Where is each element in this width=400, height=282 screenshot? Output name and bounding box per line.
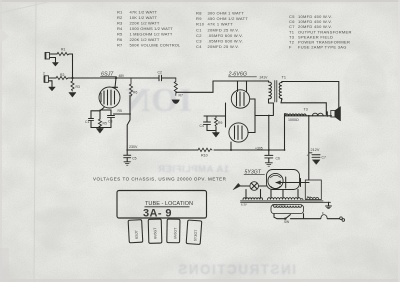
capacitor C3 — [108, 116, 115, 128]
svg-text:R7: R7 — [117, 42, 123, 47]
svg-text:R1: R1 — [117, 10, 123, 15]
svg-text:20MFD 25 W.V.: 20MFD 25 W.V. — [208, 44, 240, 49]
wire T1 secondary top — [282, 82, 339, 111]
label 2-6V6G — [228, 72, 257, 78]
svg-text:3A- 9: 3A- 9 — [143, 208, 172, 220]
ground (core) — [326, 202, 332, 208]
wire cathode left branch — [91, 111, 100, 118]
wire cathode gnd join — [207, 127, 216, 133]
wire screen to divider — [114, 109, 131, 114]
svg-text:C5: C5 — [132, 157, 136, 161]
svg-text:1A AMPLIFIER: 1A AMPLIFIER — [158, 164, 229, 175]
wire lower 6V6 to B+ — [230, 142, 232, 150]
AC plug — [340, 217, 345, 221]
wire B+ line — [127, 149, 285, 151]
svg-text:R5: R5 — [117, 31, 123, 36]
capacitor C2 (coupling) — [158, 71, 162, 81]
node junction B+ x231 — [230, 149, 232, 151]
fuse F — [321, 212, 327, 219]
wire plate/grid top line — [213, 80, 269, 82]
wire screen branch — [100, 110, 111, 115]
speaker SP — [331, 107, 341, 122]
ground (C7) — [313, 160, 321, 165]
wire T1 secondary bottom — [281, 99, 327, 116]
svg-text:5Y3GT: 5Y3GT — [193, 229, 198, 241]
svg-text:R7: R7 — [179, 94, 183, 98]
svg-text:450 OHM 1/2 WATT: 450 OHM 1/2 WATT — [208, 16, 249, 21]
svg-text:C4: C4 — [200, 124, 204, 128]
wire cathode down — [100, 108, 104, 120]
wire pot wiper to 6V6 grid — [176, 81, 213, 92]
svg-text:R1: R1 — [61, 48, 65, 52]
svg-text:F: F — [322, 212, 324, 216]
wire grid line — [68, 77, 159, 79]
svg-text:500K VOLUME CONTROL: 500K VOLUME CONTROL — [130, 42, 181, 47]
svg-text:R10: R10 — [201, 154, 208, 158]
svg-text:R3: R3 — [117, 21, 123, 26]
tube location box — [117, 191, 207, 219]
svg-text:R5: R5 — [103, 122, 107, 126]
svg-text:C1: C1 — [196, 27, 202, 32]
svg-text:10K 1/2 WATT: 10K 1/2 WATT — [130, 15, 158, 20]
wire cathode tap — [204, 115, 226, 117]
resistor R9 — [215, 116, 223, 126]
node junction field right — [308, 115, 310, 117]
svg-text:R2: R2 — [60, 73, 64, 77]
svg-text:R9: R9 — [218, 121, 222, 125]
node junction grid cap — [115, 77, 117, 79]
transformer T2 primary — [271, 205, 304, 214]
inductor voice coil — [312, 113, 323, 116]
svg-text:+: + — [307, 154, 309, 158]
svg-text:48V: 48V — [119, 74, 126, 78]
resistor R10 — [198, 148, 212, 157]
transformer T2 secondary row — [243, 198, 303, 200]
rectangle 5V winding — [305, 180, 321, 200]
node junction B+ x270 — [268, 149, 270, 151]
svg-text:C3: C3 — [108, 120, 112, 124]
svg-text:1000Ω: 1000Ω — [288, 118, 299, 122]
socket 5Y3GT — [186, 220, 202, 244]
tube location chart — [117, 191, 207, 245]
svg-text:220K 1/2 WATT: 220K 1/2 WATT — [130, 21, 160, 26]
svg-text:6SJ7: 6SJ7 — [134, 230, 138, 239]
svg-text:6.3V: 6.3V — [241, 203, 247, 207]
resistor R3 — [71, 78, 80, 91]
svg-text:C1: C1 — [85, 120, 89, 124]
svg-text:R6: R6 — [133, 91, 137, 95]
jack J1 — [45, 53, 57, 63]
capacitor C1 — [85, 119, 94, 128]
svg-text:TUBE - LOCATION: TUBE - LOCATION — [145, 201, 193, 207]
svg-text:1000 OHMS 1/2 WATT: 1000 OHMS 1/2 WATT — [130, 26, 174, 31]
capacitor C7 — [307, 153, 326, 160]
tube V4 5Y3GT — [267, 170, 310, 190]
svg-text:C2: C2 — [158, 71, 162, 75]
svg-text:2: 2 — [43, 72, 45, 76]
socket 6SJ7 — [128, 220, 143, 243]
wire speaker baseline — [285, 114, 332, 150]
svg-text:F: F — [289, 45, 292, 50]
potentiometer R7 volume — [174, 78, 183, 98]
svg-text:R3: R3 — [76, 85, 80, 89]
svg-text:R6: R6 — [117, 37, 123, 42]
resistor R2 — [56, 73, 68, 80]
svg-text:.05MFD 600 W.V.: .05MFD 600 W.V. — [208, 38, 244, 43]
svg-text:R2: R2 — [117, 15, 123, 20]
label TUBE - LOCATION — [145, 201, 194, 207]
wire top cap — [115, 78, 116, 88]
pilot lamp — [241, 182, 267, 191]
wire cathode link 6V6 — [225, 103, 227, 127]
svg-text:47K 1/2 WATT: 47K 1/2 WATT — [130, 10, 158, 15]
svg-text:47K 1 WATT: 47K 1 WATT — [208, 22, 234, 27]
svg-text:220K 1/2 WATT: 220K 1/2 WATT — [130, 37, 160, 42]
wire R1 to junction — [69, 54, 73, 78]
wire 5Y3 stubs to windings — [246, 190, 298, 198]
wire AC line — [291, 214, 340, 219]
svg-text:5V: 5V — [307, 195, 311, 199]
ground (pilot) — [233, 183, 241, 189]
svg-text:ION: ION — [125, 82, 192, 119]
svg-text:C6: C6 — [276, 157, 280, 161]
parts list — [117, 10, 352, 50]
svg-text:241V: 241V — [260, 76, 269, 80]
ground (jack J2) — [49, 87, 56, 91]
svg-text:T3: T3 — [304, 108, 308, 112]
capacitor C5 — [124, 150, 137, 165]
svg-text:R5: R5 — [118, 109, 122, 113]
wire plate link right — [248, 99, 255, 133]
label 6SJ7 — [101, 72, 117, 78]
svg-text:VOLTAGES TO CHASSIS, USING 200: VOLTAGES TO CHASSIS, USING 20000 OPV. ME… — [93, 177, 227, 182]
wire field to B+ node — [308, 116, 310, 180]
resistor R1 — [57, 48, 69, 56]
wire cathode common — [91, 127, 111, 129]
ground (cathode) — [97, 129, 104, 134]
capacitor C6 — [265, 150, 280, 166]
ground (R7) — [172, 100, 180, 104]
svg-text:.05MFD 600 W.V.: .05MFD 600 W.V. — [208, 33, 244, 38]
resistor R6 — [127, 78, 137, 150]
tube V2 6V6G — [231, 90, 249, 108]
svg-text:230V: 230V — [129, 145, 138, 149]
svg-text:20MFD 25 W.V.: 20MFD 25 W.V. — [208, 27, 240, 32]
wire to T1 bottom — [255, 101, 273, 150]
svg-text:R9: R9 — [196, 16, 202, 21]
svg-text:R8: R8 — [196, 11, 202, 16]
svg-text:1 MEGOHM 1/2 WATT: 1 MEGOHM 1/2 WATT — [130, 31, 173, 36]
socket 6V6GT b — [167, 219, 180, 243]
capacitor C4 — [200, 116, 211, 128]
svg-text:SW: SW — [284, 220, 289, 224]
jack J2 — [43, 72, 56, 87]
switch SW — [274, 214, 290, 224]
svg-text:6V6GT: 6V6GT — [173, 227, 177, 239]
node junction speaker line — [268, 115, 270, 117]
svg-text:INSTRUCTIONS: INSTRUCTIONS — [177, 262, 296, 277]
showthrough watermarks — [125, 82, 296, 277]
label winding voltages — [241, 203, 286, 207]
node junction input — [71, 77, 73, 79]
wire grid line to pot — [162, 77, 176, 79]
ground (6V6 cathode) — [213, 133, 220, 138]
svg-text:6V6GT: 6V6GT — [153, 227, 157, 239]
svg-text:FUSE 2AMP TYPE 3AG: FUSE 2AMP TYPE 3AG — [298, 45, 347, 50]
svg-text:C3: C3 — [196, 38, 202, 43]
svg-text:212V: 212V — [311, 148, 320, 152]
transformer T2 core — [241, 201, 331, 202]
svg-text:R4: R4 — [117, 26, 123, 31]
svg-text:+305: +305 — [255, 147, 263, 151]
transformer T1 — [269, 76, 286, 103]
svg-text:300 OHM 1 WATT: 300 OHM 1 WATT — [208, 11, 245, 16]
svg-text:T1: T1 — [282, 76, 286, 80]
resistor R5 — [98, 119, 107, 127]
svg-text:C7: C7 — [322, 156, 326, 160]
socket 6V6GT a — [148, 219, 162, 243]
ground (jack J1) — [53, 63, 59, 67]
svg-text:C4: C4 — [196, 44, 202, 49]
tube V3 6V6G — [229, 123, 248, 142]
inductor speaker field — [286, 108, 308, 122]
wire 6V6 plate drops — [238, 81, 247, 92]
svg-text:R10: R10 — [196, 22, 205, 27]
ground (R3) — [69, 93, 76, 98]
label 5Y3GT — [244, 170, 265, 176]
svg-text:C2: C2 — [196, 33, 202, 38]
tube V1 6SJ7 — [99, 87, 120, 108]
